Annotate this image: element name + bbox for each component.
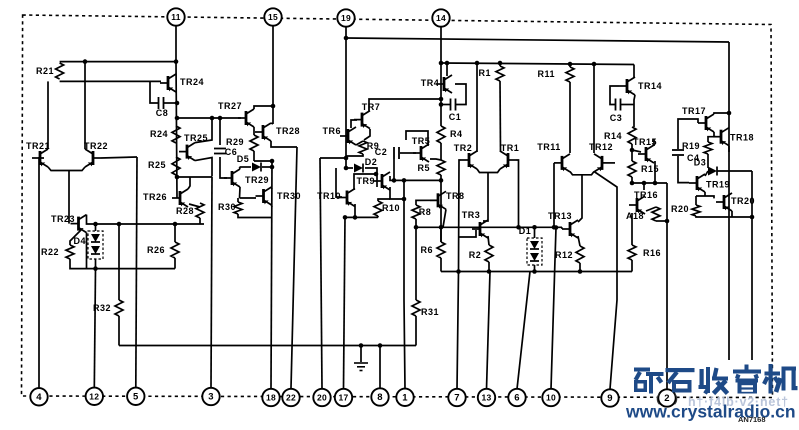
- pin 4: [30, 388, 47, 405]
- svg-text:TR4: TR4: [421, 78, 440, 88]
- svg-text:R24: R24: [150, 129, 168, 139]
- wire col segment: [440, 143, 442, 160]
- wire row to TR25 collector column: [177, 117, 212, 119]
- wire D5 anode row: [240, 166, 252, 168]
- svg-text:TR10: TR10: [317, 191, 341, 201]
- transistor TR7: [354, 102, 380, 129]
- transistor TR6: [322, 126, 356, 145]
- pin 12: [86, 388, 103, 405]
- wire pin4 to TR21 base: [39, 158, 44, 388]
- wire pin 18 column: [271, 161, 272, 388]
- svg-text:7: 7: [454, 393, 460, 404]
- svg-text:TR28: TR28: [276, 126, 300, 136]
- transistor TR24: [160, 74, 204, 92]
- junction: [271, 104, 276, 109]
- wire TR5 collector row: [406, 131, 428, 146]
- wire R15 bottom: [631, 177, 633, 183]
- wire TR5 base row: [400, 152, 416, 154]
- transistor TR14: [619, 77, 662, 95]
- svg-text:R15: R15: [641, 164, 659, 174]
- wire R21 bottom row to TR24 base: [60, 80, 161, 82]
- transistor TR23: [51, 214, 87, 233]
- wire diff emitter rail: [477, 169, 500, 173]
- wire D4 bottom: [95, 259, 97, 269]
- wire pin 22 column: [291, 147, 297, 388]
- transistor TR8: [430, 191, 465, 209]
- svg-text:R5: R5: [417, 163, 430, 173]
- resistor R19: [682, 141, 712, 154]
- svg-text:TR30: TR30: [277, 191, 301, 201]
- svg-text:D4: D4: [73, 236, 86, 246]
- wire TR8 emitter down: [443, 209, 446, 227]
- wire R32 top column: [118, 224, 120, 300]
- junction: [344, 156, 349, 161]
- wire R18 to pin2 column: [656, 220, 667, 222]
- junction: [532, 225, 537, 230]
- svg-text:R10: R10: [382, 203, 400, 213]
- wire TR28 collector to col: [271, 123, 273, 124]
- svg-text:TR6: TR6: [322, 126, 341, 136]
- svg-text:R11: R11: [537, 69, 555, 79]
- wire TR21 collector up: [47, 81, 49, 149]
- wire TR13 emitter: [578, 236, 580, 246]
- junction: [173, 222, 178, 227]
- wire TR26 emitter to R28: [189, 204, 200, 207]
- capacitor C1: [449, 99, 462, 123]
- wire TR14 emitter down: [634, 95, 635, 127]
- wire C1 left: [441, 104, 450, 106]
- wire TR28 emitter to pin22 column: [271, 141, 297, 147]
- wire TR1 base column: [516, 160, 519, 227]
- wire R20 bottom row: [696, 216, 752, 217]
- resistor R22: [41, 245, 74, 259]
- wire TR27 emitter to R29: [253, 127, 255, 135]
- junction: [439, 178, 444, 183]
- svg-text:R22: R22: [41, 247, 59, 257]
- pin 5: [127, 388, 144, 405]
- resistor R12: [555, 246, 584, 263]
- junction: [592, 62, 597, 67]
- wire pin 19 column down: [345, 38, 347, 168]
- wire TR12 emitter to pin 9: [594, 172, 617, 390]
- svg-text:TR14: TR14: [638, 81, 662, 91]
- wire C8 left: [150, 81, 158, 103]
- wire TR17 collector row: [714, 113, 729, 114]
- wire R2 bottom: [488, 262, 490, 272]
- wire R11 top: [569, 64, 571, 67]
- wire R31 bottom: [415, 316, 417, 346]
- wire TR29 emitter down: [239, 187, 242, 198]
- wire TR2 base column to pin 7: [457, 160, 461, 389]
- svg-text:19: 19: [341, 13, 351, 23]
- watermark crystalradio logo: [634, 364, 798, 394]
- wire TR7 emitter row to pin14 column: [369, 99, 441, 111]
- pin 2: [658, 389, 675, 406]
- svg-text:20: 20: [317, 393, 327, 403]
- wire tail to TR3: [483, 173, 488, 222]
- wire D5 cathode: [262, 166, 272, 168]
- svg-text:6: 6: [514, 393, 520, 404]
- junction: [445, 61, 450, 66]
- wire TR11 base column: [553, 163, 555, 227]
- wire C1 right to TR4: [455, 84, 466, 105]
- wire C4 top to TR17 base: [678, 119, 698, 149]
- wire TR3 emitter: [488, 236, 489, 245]
- svg-text:TR18: TR18: [730, 133, 754, 143]
- junction: [210, 116, 215, 121]
- svg-text:TR3: TR3: [462, 210, 481, 220]
- svg-text:AN7168: AN7168: [738, 415, 766, 424]
- wire TR13 collector to tail: [578, 175, 582, 222]
- wire row to TR27 base: [212, 117, 241, 119]
- diode D5: [237, 154, 261, 172]
- wire diff emitter rail 2: [570, 172, 594, 175]
- transistor TR18: [713, 128, 754, 146]
- wire R30 bottom row: [238, 214, 272, 218]
- svg-text:R16: R16: [643, 248, 661, 258]
- wire emitter row: [345, 216, 378, 218]
- wire top row to pin11 column: [60, 61, 176, 63]
- svg-text:3: 3: [208, 392, 214, 403]
- wire TR23 emitter column: [86, 233, 88, 269]
- wire TR18 base to R19: [708, 137, 716, 142]
- wire TR18 emitter merge: [728, 146, 730, 152]
- transistor TR17: [682, 106, 714, 132]
- junction: [516, 225, 521, 230]
- wire TR10 emitter: [354, 204, 356, 217]
- junction: [750, 215, 755, 220]
- svg-text:R32: R32: [93, 303, 111, 313]
- wire diff pair emitter rail: [48, 167, 85, 171]
- wire D2 to TR9 base column: [365, 168, 377, 187]
- diode D3: [694, 158, 717, 176]
- svg-text:TR2: TR2: [454, 143, 473, 153]
- pin 10: [542, 389, 559, 406]
- svg-text:4: 4: [36, 392, 42, 403]
- svg-text:TR8: TR8: [446, 191, 465, 201]
- wire pin 2 column: [666, 183, 668, 389]
- pin 8: [371, 388, 388, 405]
- transistor TR9: [356, 172, 390, 190]
- wire D2 anode: [346, 167, 353, 169]
- capacitor C6: [214, 147, 237, 157]
- wire bottom row left block: [70, 259, 175, 269]
- transistor TR12: [589, 142, 613, 172]
- svg-text:17: 17: [338, 393, 348, 403]
- resistor R26: [147, 242, 179, 258]
- capacitor C3: [610, 99, 623, 124]
- svg-text:R6: R6: [420, 245, 433, 255]
- resistor R29: [226, 135, 258, 151]
- pin 1: [396, 389, 413, 406]
- transistor TR20: [716, 193, 755, 211]
- pin 15: [264, 8, 281, 25]
- wire TR12 base stub: [610, 162, 615, 164]
- wire TR19 collector to D3: [705, 171, 708, 176]
- svg-text:5: 5: [133, 392, 139, 403]
- wire pin 3 column: [211, 177, 212, 388]
- wire R10 bottom: [377, 216, 379, 217]
- svg-text:D1: D1: [519, 226, 532, 236]
- transistor TR26: [143, 189, 188, 207]
- svg-text:R12: R12: [555, 250, 573, 260]
- junction: [392, 178, 397, 183]
- wire right long column: [728, 42, 730, 360]
- junction: [353, 215, 358, 220]
- capacitor C8: [156, 97, 169, 118]
- wire jog to TR3 base: [459, 230, 476, 237]
- wire TR8 base to R8: [416, 200, 438, 205]
- wire R32 bottom column: [118, 316, 120, 346]
- transistor TR4: [421, 75, 452, 93]
- wire C6 bottom to TR29 base: [220, 157, 227, 178]
- resistor R30: [218, 202, 242, 214]
- transistor TR15: [633, 137, 657, 163]
- junction: [456, 269, 461, 274]
- wire TR25 emitter jog: [195, 158, 212, 177]
- resistor R10: [374, 201, 400, 216]
- junction: [402, 197, 407, 202]
- wire C4 bottom to TR19 base: [678, 156, 689, 183]
- svg-text:R1: R1: [478, 68, 491, 78]
- wire R1 top: [499, 63, 501, 66]
- svg-text:11: 11: [171, 12, 181, 22]
- wire R26 top: [174, 224, 176, 242]
- wire to R20: [695, 196, 697, 205]
- pin 22: [282, 389, 299, 406]
- wire bus end to TR14: [633, 65, 635, 79]
- wire pin 6 column: [517, 272, 530, 390]
- junction: [359, 343, 364, 348]
- junction: [630, 181, 635, 186]
- transistor TR19: [689, 174, 730, 192]
- wire top bus from pin 19: [346, 38, 729, 42]
- pin 7: [448, 389, 465, 406]
- junction: [532, 269, 537, 274]
- svg-text:R30: R30: [218, 202, 236, 212]
- resistor R32: [93, 300, 123, 316]
- junction: [174, 59, 179, 64]
- wire pin 11 column: [176, 25, 177, 198]
- pin 19: [337, 9, 354, 26]
- svg-text:TR11: TR11: [537, 142, 561, 152]
- wire row 183: [632, 182, 667, 184]
- wire TR10 base column: [336, 168, 342, 197]
- pin 13: [478, 389, 495, 406]
- resistor R6: [420, 242, 445, 258]
- junction: [475, 61, 480, 66]
- svg-text:C8: C8: [156, 108, 169, 118]
- wire right column 2: [751, 171, 753, 360]
- svg-text:TR26: TR26: [143, 192, 167, 202]
- junction: [630, 148, 635, 153]
- resistor R5: [417, 160, 445, 175]
- resistor R20: [671, 204, 700, 216]
- svg-text:10: 10: [546, 393, 556, 403]
- junction: [642, 181, 647, 186]
- svg-text:R26: R26: [147, 245, 165, 255]
- svg-text:D5: D5: [237, 154, 250, 164]
- wire TR15 emitter down: [654, 161, 656, 183]
- resistor R2: [469, 245, 493, 262]
- junction: [218, 116, 223, 121]
- wire TR15 collector stub: [653, 139, 655, 146]
- junction: [343, 215, 348, 220]
- svg-text:TR22: TR22: [84, 141, 108, 151]
- wire emitter row to TR20 base: [696, 196, 714, 198]
- resistor R1: [478, 66, 504, 81]
- svg-text:R4: R4: [450, 129, 463, 139]
- wire long row 271: [441, 271, 632, 273]
- svg-text:R2: R2: [469, 250, 482, 260]
- svg-text:9: 9: [607, 393, 613, 404]
- wire TR5 emitter: [430, 159, 441, 160]
- junction: [653, 181, 658, 186]
- junction: [727, 111, 732, 116]
- ground: [354, 363, 368, 371]
- wire col segment: [440, 105, 442, 127]
- wire D3 cathode to column: [717, 170, 752, 172]
- svg-text:TR21: TR21: [26, 141, 50, 151]
- wire pin 10 column: [551, 227, 556, 389]
- wire to R10 top: [378, 199, 390, 201]
- svg-text:13: 13: [481, 393, 491, 403]
- wire TR20 emitter down: [731, 211, 733, 217]
- wire to TR15 base: [632, 150, 641, 152]
- wire jog to TR13 base: [561, 227, 563, 229]
- wire tail to TR23: [68, 171, 70, 224]
- wire TR12 collector to bus: [593, 64, 595, 153]
- wire R26 bottom: [174, 258, 176, 269]
- wire pin 17 column: [344, 217, 346, 388]
- svg-text:22: 22: [286, 393, 296, 403]
- wire R6 bottom: [440, 258, 442, 272]
- transistor TR13: [548, 211, 578, 238]
- svg-text:C6: C6: [225, 147, 238, 157]
- wire C6 top column: [219, 118, 221, 145]
- wire R8/R31 column: [415, 227, 417, 300]
- wire TR29 collector: [239, 167, 242, 169]
- pin 6: [508, 389, 525, 406]
- svg-text:1: 1: [402, 393, 408, 404]
- wire R30 top: [237, 198, 239, 202]
- junction: [93, 266, 98, 271]
- transistor TR27: [218, 101, 254, 127]
- wire TR4 emitter up: [446, 63, 448, 76]
- svg-text:C2: C2: [375, 147, 388, 157]
- resistor R14: [604, 127, 636, 144]
- svg-text:C3: C3: [610, 113, 623, 123]
- junction: [665, 219, 670, 224]
- wire pin 14 stub: [440, 25, 442, 63]
- wire TR27 collector to col: [254, 106, 273, 109]
- wire TR26 collector up: [188, 177, 190, 189]
- wire to TR30 base: [240, 197, 257, 199]
- pin 2 alternate numbering parens: [656, 391, 678, 405]
- wire TR7 lower lead to R9 top: [364, 129, 370, 140]
- junction: [498, 61, 503, 66]
- pin 20: [313, 389, 330, 406]
- resistor R31: [412, 300, 439, 317]
- junction: [175, 101, 180, 106]
- svg-text:R31: R31: [421, 307, 439, 317]
- svg-text:TR7: TR7: [362, 102, 381, 112]
- resistor R8: [412, 205, 431, 219]
- wire TR17 emitter to TR18 base: [713, 132, 715, 137]
- junction: [578, 269, 583, 274]
- wire TR2 collector to bus: [476, 63, 478, 152]
- pin 9: [601, 389, 618, 406]
- wire pin 8 column: [379, 346, 381, 390]
- svg-text:TR20: TR20: [731, 196, 755, 206]
- capacitor C2: [375, 147, 399, 159]
- svg-text:15: 15: [268, 12, 278, 22]
- svg-text:R25: R25: [148, 160, 166, 170]
- wire TR19 emitter down: [704, 192, 706, 196]
- wire R9 bottom to column: [346, 154, 363, 156]
- svg-text:12: 12: [89, 392, 99, 402]
- transistor TR21: [26, 141, 50, 167]
- svg-text:R19: R19: [682, 141, 700, 151]
- wire bus from pin 14: [441, 63, 634, 65]
- wire R28 bottom: [199, 218, 201, 224]
- wire node row to pin18 column: [254, 160, 272, 162]
- resistor R24: [150, 126, 180, 143]
- svg-text:TR13: TR13: [548, 211, 572, 221]
- junction: [378, 343, 383, 348]
- wire R16 bottom: [631, 260, 633, 272]
- transistor TR10: [317, 189, 355, 207]
- svg-text:TR1: TR1: [501, 143, 520, 153]
- junction: [554, 225, 559, 230]
- wire TR22 base to pin5 column: [101, 157, 137, 158]
- pin 17: [335, 389, 352, 406]
- wire R19 bottom: [707, 154, 709, 168]
- wire C2 left plate column: [393, 159, 395, 180]
- wire ground stub: [360, 346, 362, 363]
- resistor R25: [148, 157, 180, 175]
- diode D2: [354, 157, 377, 173]
- resistor R15: [628, 161, 659, 177]
- wire TR9 emitter row: [390, 187, 404, 199]
- svg-text:TR9: TR9: [356, 176, 375, 186]
- junction: [117, 222, 122, 227]
- pin 18: [262, 389, 279, 406]
- svg-text:C1: C1: [449, 112, 462, 122]
- junction: [552, 225, 557, 230]
- junction: [175, 175, 180, 180]
- wire TR16 collector up: [643, 183, 645, 190]
- transistor TR16: [629, 190, 658, 214]
- junction: [439, 102, 444, 107]
- svg-text:R14: R14: [604, 131, 622, 141]
- diode pair D4: [73, 231, 103, 259]
- junction: [439, 97, 444, 102]
- resistor R4: [437, 126, 463, 143]
- wire D1 top: [534, 227, 536, 238]
- wire pin14 column upper: [440, 63, 442, 105]
- svg-text:TR19: TR19: [706, 180, 730, 190]
- wire C8 right: [164, 102, 177, 104]
- junction: [439, 225, 444, 230]
- wire pin 13 column: [487, 272, 491, 390]
- pin 14: [432, 9, 449, 26]
- junction: [487, 269, 492, 274]
- transistor TR30: [256, 187, 302, 205]
- pin 3: [202, 388, 219, 405]
- wire pin 1 column: [404, 180, 405, 389]
- wire TR16 emitter to R18: [646, 207, 656, 211]
